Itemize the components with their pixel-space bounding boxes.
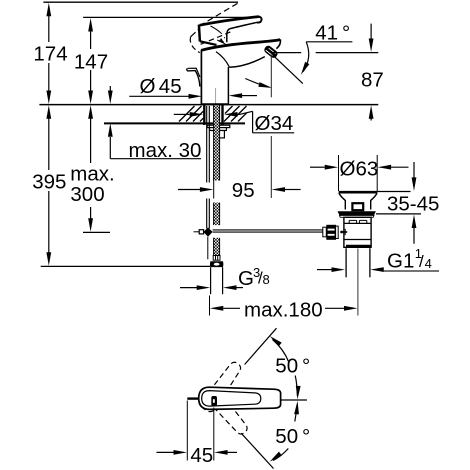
drain ring (black band): [338, 211, 376, 215]
mounting nut: [210, 128, 227, 131]
svg-text:395: 395: [32, 170, 66, 193]
svg-text:4: 4: [425, 256, 432, 271]
svg-text:8: 8: [263, 272, 270, 287]
41 degree spray line: [272, 55, 303, 84]
handle swung left 50 (dashed): [202, 384, 251, 437]
svg-text:35-45: 35-45: [387, 192, 439, 215]
dimension G1 1/4: [317, 246, 439, 273]
dimension 174: [33, 3, 67, 104]
dimension 45 (bottom view): [157, 401, 238, 468]
node: spout outlet height line (87 top ref): [273, 52, 301, 54]
spout aerator: [263, 44, 279, 59]
dimension G3/8: [180, 265, 270, 290]
41 degree label and leader: [299, 21, 353, 76]
50 degree arc lower: [268, 401, 300, 464]
lever raised position (dashed): [190, 2, 240, 53]
spout nose: [276, 39, 280, 48]
horizontal rod to drain (double line): [213, 230, 323, 232]
linkage pin with ball: [340, 229, 347, 235]
dimension Ø34 with leader bracket: [174, 111, 294, 135]
svg-text:Ø34: Ø34: [255, 112, 294, 135]
counter hatch left: [179, 106, 203, 122]
pop-up knob at faucet back: [187, 68, 200, 86]
hose crimp collar: [213, 256, 220, 261]
dimension 35-45: [376, 162, 439, 244]
dimension 87: [361, 24, 384, 121]
svg-text:°: °: [342, 21, 350, 44]
mounting shank walls below counter: [204, 105, 222, 125]
50 degree arc upper: [268, 334, 300, 399]
pop-up rod (vertical, double line): [207, 106, 210, 229]
svg-text:50: 50: [275, 354, 298, 377]
counter bottom line: [104, 122, 245, 124]
node: lever tip height reference line: [83, 16, 259, 18]
swing extension line upper 50: [245, 328, 277, 364]
node: aerator vertical reference line: [270, 54, 272, 97]
swing extension line lower 50: [241, 433, 273, 468]
drain tailpipe: [346, 248, 370, 277]
node: max.300 end line: [83, 231, 110, 233]
lever handle (side view, solid): [199, 16, 262, 45]
rod tail below node: [207, 237, 209, 259]
counter hatch right: [224, 106, 247, 122]
body/spout crease: [216, 52, 229, 67]
spout underside curve: [229, 57, 264, 68]
dimension max.300: [70, 105, 114, 232]
pop-up rod joint node: [203, 228, 212, 237]
handle top view (solid): [199, 387, 281, 409]
svg-text:45: 45: [190, 444, 213, 467]
dimension max.180: [210, 296, 358, 322]
svg-text:45: 45: [159, 75, 182, 98]
node: top reference line (max lever height): [43, 1, 238, 3]
faucet base column: [201, 50, 228, 105]
mounting washer: [207, 125, 230, 127]
braided supply hose (checkered): [214, 105, 220, 256]
svg-text:°: °: [302, 354, 310, 377]
svg-text:/: /: [419, 252, 424, 271]
svg-text:147: 147: [74, 51, 108, 74]
counter top line: [39, 104, 378, 106]
supply tube (G3/8): [211, 267, 223, 294]
svg-text:50: 50: [275, 425, 298, 448]
svg-text:95: 95: [232, 179, 255, 202]
hose end fitting (nut): [210, 261, 224, 267]
svg-text:°: °: [302, 425, 310, 448]
svg-text:87: 87: [361, 68, 384, 91]
svg-text:300: 300: [70, 183, 104, 206]
rod adjuster left of node: [199, 230, 203, 234]
drain axis line: [357, 249, 359, 316]
svg-text:G1: G1: [387, 249, 414, 272]
drain flange top: [339, 191, 378, 194]
41 degree angle arc: [245, 79, 268, 88]
dimension 395: [32, 105, 66, 266]
drain funnel sides: [339, 193, 345, 209]
pop-up linkage knurled nut: [323, 225, 336, 240]
svg-text:41: 41: [315, 21, 338, 44]
node: 395 end line: [41, 265, 211, 267]
svg-text:174: 174: [33, 43, 67, 66]
pop-up rod stub (top view): [187, 397, 199, 399]
dimension Ø45: [129, 75, 257, 99]
dimension 147: [74, 18, 108, 104]
handle centerline: [281, 399, 307, 401]
svg-text:G: G: [238, 267, 254, 290]
shank tube end below nut: [219, 131, 224, 138]
drain body: [344, 217, 371, 247]
dimension Ø63: [310, 155, 409, 191]
svg-text:max. 30: max. 30: [129, 139, 202, 162]
svg-text:Ø: Ø: [140, 75, 156, 98]
faucet body top (spout top edge): [201, 40, 280, 51]
drain body slots: [349, 220, 367, 223]
handle swung right 50 (dashed): [199, 359, 244, 414]
dimension 95: [178, 178, 301, 202]
svg-text:max.180: max.180: [244, 299, 323, 322]
drain plug knob: [352, 203, 363, 210]
linkage plate: [336, 226, 339, 238]
svg-text:Ø63: Ø63: [340, 157, 379, 180]
dimension max.30: [108, 86, 202, 162]
